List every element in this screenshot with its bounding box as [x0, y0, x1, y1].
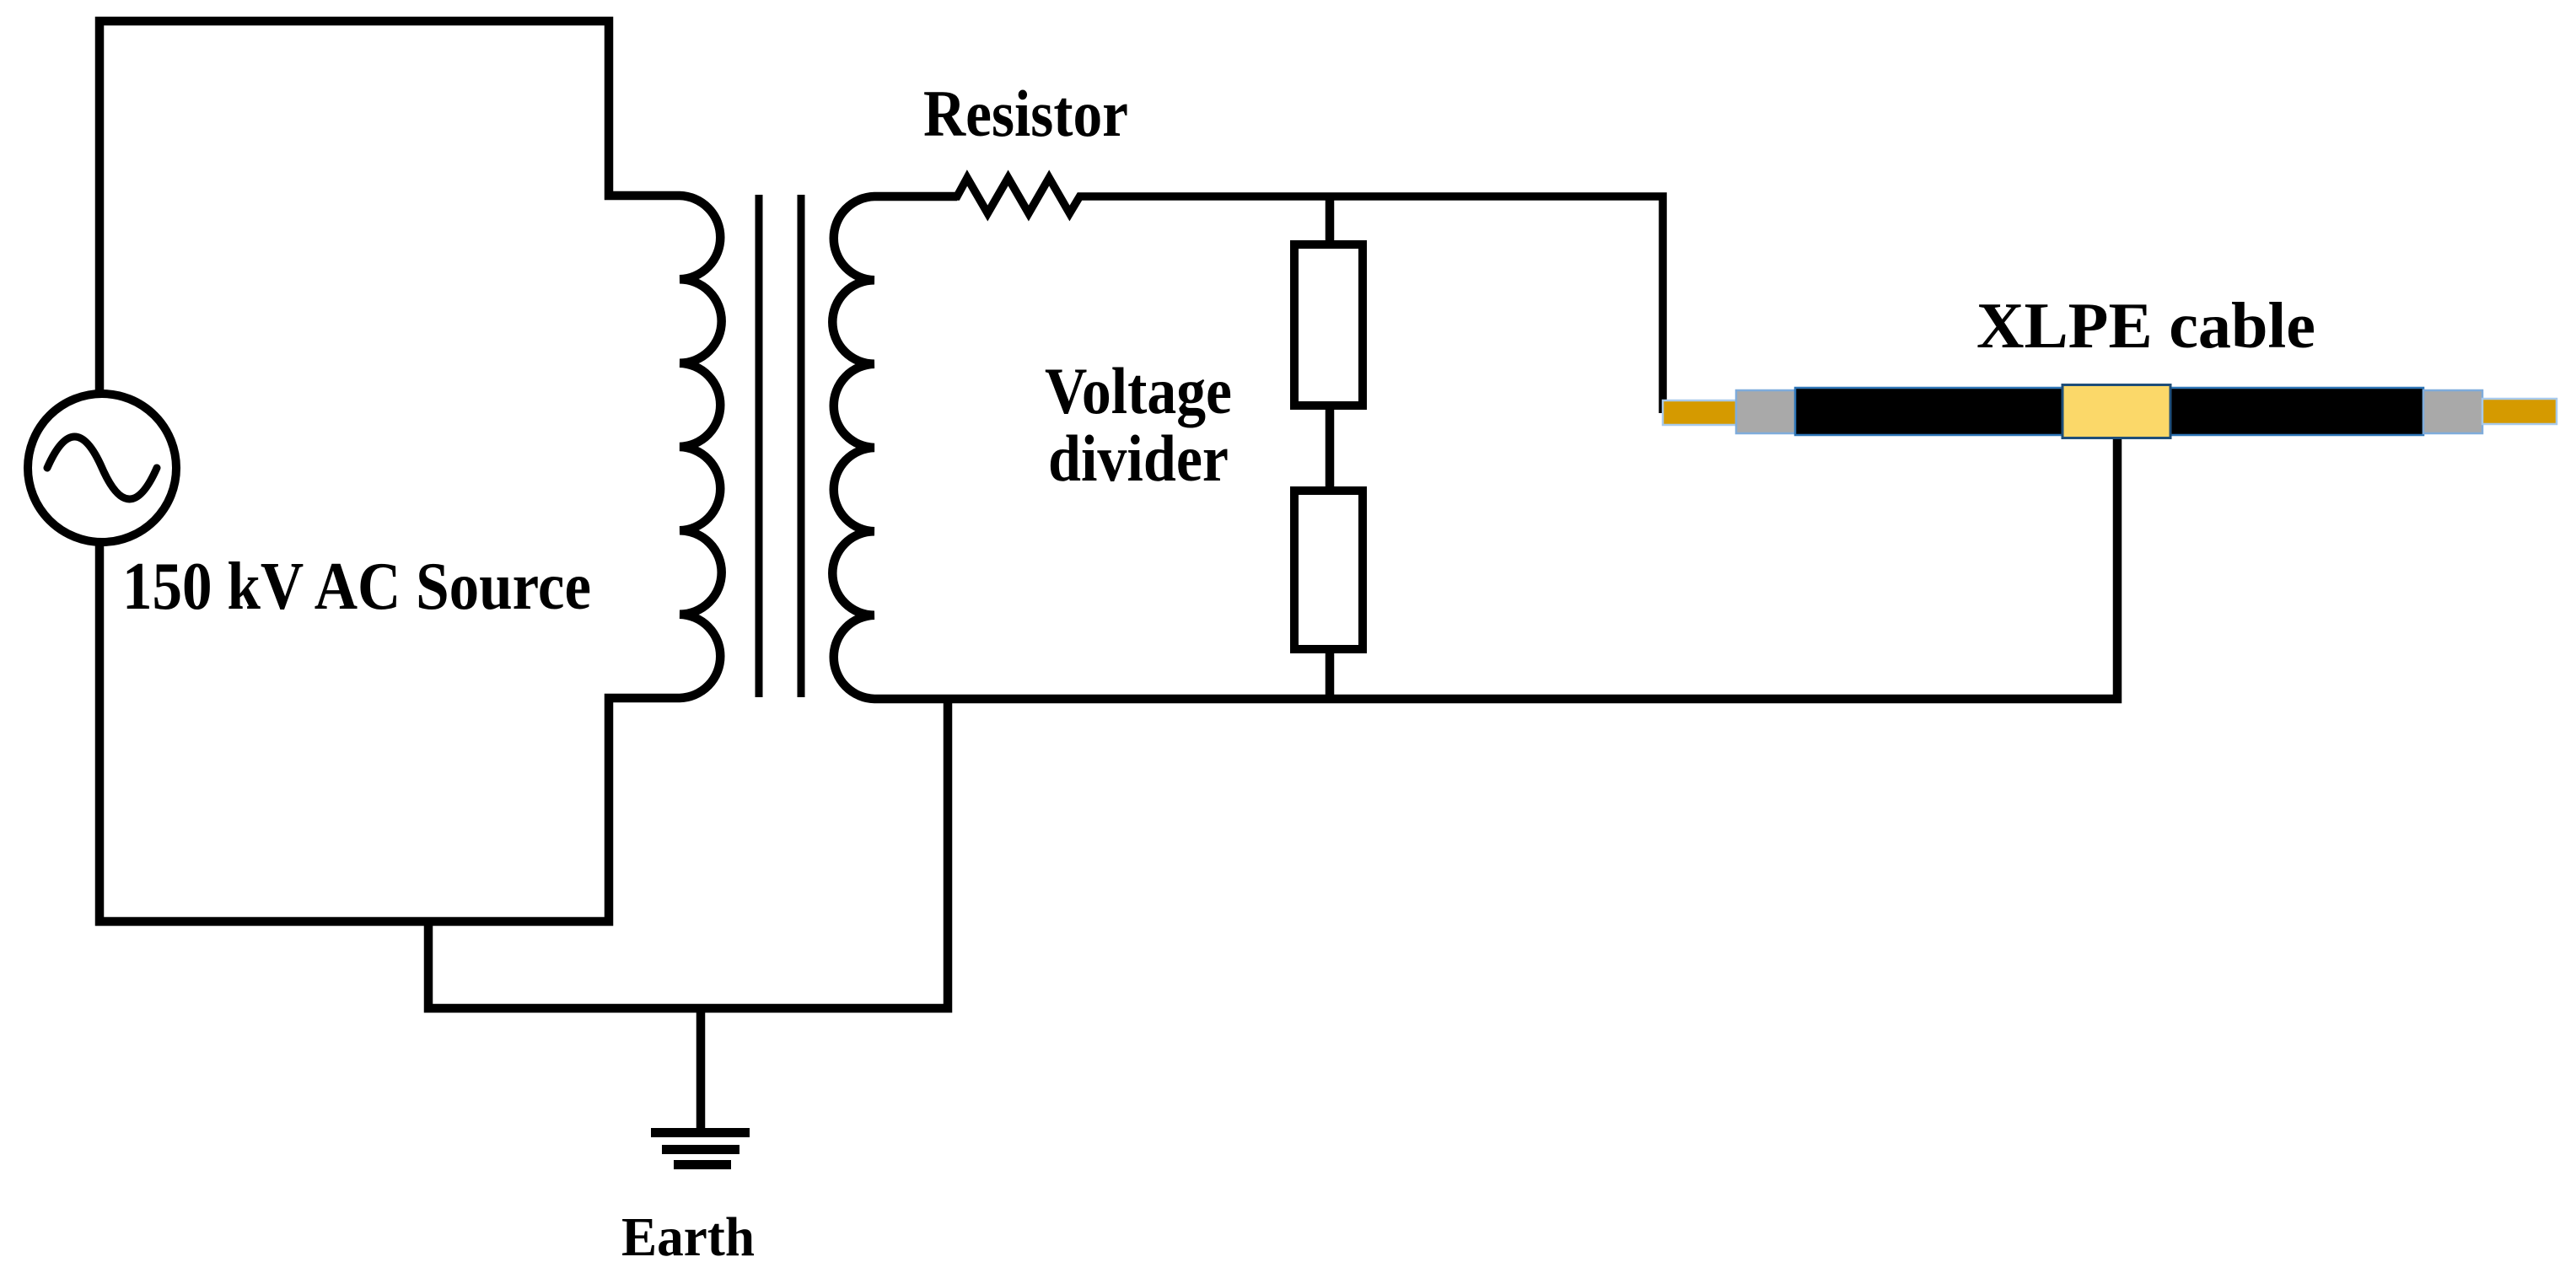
svg-text:Resistor: Resistor — [923, 77, 1128, 150]
svg-text:Voltage: Voltage — [1045, 354, 1232, 427]
svg-text:XLPE cable: XLPE cable — [1976, 289, 2315, 362]
svg-text:150 kV AC Source: 150 kV AC Source — [122, 550, 591, 624]
svg-text:divider: divider — [1048, 422, 1229, 495]
svg-text:Earth: Earth — [621, 1206, 755, 1268]
